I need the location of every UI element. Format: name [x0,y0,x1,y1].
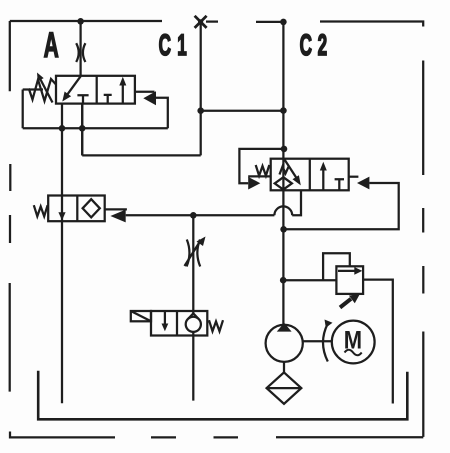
wire V1 right pilot to bottom line [156,98,168,129]
valve V4 check seat caret [188,313,198,318]
wire relief pilot loop [323,253,350,280]
wire V1 T1 port down [81,104,83,156]
node relief branch dot [280,277,287,284]
svg-text:C2: C2 [300,29,333,62]
node V3 top pilot dot [281,146,288,153]
valve V2 down flow arrowhead [58,212,65,220]
node C2 junction dot on border [280,19,287,26]
wire C1 branch up to valve V1 bottom port [81,104,83,156]
svg-text:A: A [44,27,59,66]
valve V4 solenoid box [131,311,151,321]
valve V3 blocked port T [335,179,344,190]
node A junction dot on border [77,18,84,25]
enclosure border top dashes [10,21,423,27]
quick-disconnect coupling on A line [76,43,79,62]
pump P1 circle [266,325,303,362]
svg-text:C1: C1 [159,29,193,62]
node C2 cross dot [280,107,287,114]
valve V3 up flow arrow [322,170,324,191]
node C1 cross dot [197,107,204,114]
wire relief drain line [363,280,393,404]
enclosure border left dashes [9,21,12,392]
valve V1 diagonal flow arrow [66,76,81,96]
valve V3 spring [256,165,270,176]
valve V1 body [56,76,135,104]
valve V1 spring [29,79,56,101]
valve V3 left pilot box [248,175,271,177]
relief valve RV1 body [336,266,363,294]
valve V4 check ball circle [186,317,201,332]
wire V1 pilot bottom line [23,127,168,129]
throttle variable restrictor arcs [187,240,190,267]
enclosure border right dashes [422,61,424,437]
node dot V1 T1 port [79,125,86,132]
valve V3 diagonal flow arrow [285,160,297,179]
wire V4 down to drain end [192,332,194,401]
tank return line [38,371,407,420]
filter F1 diamond [267,372,302,403]
valve V4 body [151,311,207,336]
wire C1 horizontal to left [82,154,201,156]
rotation direction arc [323,324,328,362]
valve V2 spring [34,205,48,216]
wire cross line C1 to C2 [201,110,284,112]
valve V2 check diamond [83,199,100,217]
valve V3 check spring small [280,166,289,174]
relief valve RV1 spring adjust arrow [340,299,351,308]
valve V2 pilot box [105,208,127,210]
port C1 plug symbol X [195,16,207,28]
filter F1 mesh line [267,387,302,389]
valve V3 body [271,159,349,191]
wire hop over C2 line [274,206,292,215]
valve V1 up flow arrow [122,85,124,104]
enclosure border bottom dashes [10,432,423,438]
wire throttle line down [192,215,194,314]
throttle adjust arrow [185,243,200,266]
motor M1 wave symbol [345,350,362,356]
valve V2 body [48,196,104,222]
valve V1 blocked port T2 [104,95,112,104]
wire port A down to valve V1 top port [79,21,81,76]
wire C1 line down [200,24,202,155]
valve V4 down flow arrow [164,311,166,324]
wire C2 main vertical line [282,22,284,325]
wire V3 top pilot loop [239,149,284,183]
relief valve RV1 internal arrow [338,270,355,272]
wire V1 left pilot loop [23,90,43,129]
valve V4 spring [209,320,223,331]
node right pilot junction dot [280,226,287,233]
motor M1 circle [332,321,375,364]
valve V3 check diamond [275,177,292,189]
node dot V1 left port [59,125,66,132]
valve V1 blocked port T1 [77,95,88,103]
valve V3 right pilot box [349,176,359,178]
pump P1 triangle [277,323,292,332]
valve V1 spring adjust arrow [41,80,53,103]
wire pump to filter [283,362,285,373]
node throttle branch dot [190,212,197,219]
wire V1 left port down through V2 to drain end [61,104,63,404]
wire V2 pilot output line [126,214,275,216]
wire V3 right pilot loop [284,183,399,229]
shaft pump to motor [303,340,332,342]
wire main line to relief valve [283,279,336,281]
valve V1 right pilot box [135,91,155,93]
